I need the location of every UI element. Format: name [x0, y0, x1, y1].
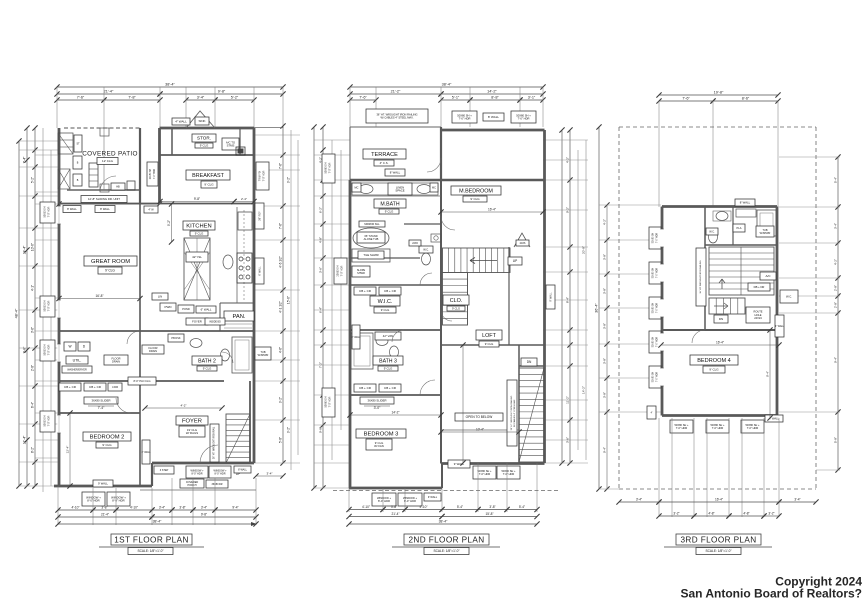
plan 1: kitchen bottom wall — [59, 330, 254, 332]
svg-text:ALONE TUB: ALONE TUB — [364, 237, 379, 241]
plan 2: interior dimension bedroom3 — [350, 414, 441, 416]
plan 1: left leader lines — [19, 140, 59, 142]
plan 1: porch slab edge — [140, 489, 256, 491]
svg-text:SCALE: 1/8"=1'-0": SCALE: 1/8"=1'-0" — [706, 549, 732, 553]
plan 2: bottom window boxes — [372, 493, 396, 506]
svg-text:CB + CR: CB + CR — [384, 289, 397, 293]
plan 2: stair landing rail — [467, 273, 469, 326]
svg-text:50X30 SH: 50X30 SH — [44, 300, 47, 311]
svg-text:15'-6": 15'-6" — [287, 296, 291, 304]
plan 1: patio AC pad hatch — [58, 169, 70, 189]
svg-text:BATH 3: BATH 3 — [379, 358, 397, 364]
plan 2: closet row — [354, 287, 376, 295]
plan 1: interior dimension breakfast — [160, 201, 234, 203]
plan 1: closet row boxes — [59, 383, 81, 391]
plan 1: title — [111, 534, 192, 545]
svg-text:MC: MC — [432, 186, 436, 189]
svg-text:36" HT. WROUGHT IRON RAILING: 36" HT. WROUGHT IRON RAILING — [699, 260, 702, 293]
svg-text:16'-4": 16'-4" — [715, 498, 723, 502]
svg-text:9' WALL: 9' WALL — [550, 292, 553, 302]
plan 3: upper stairs — [709, 247, 774, 295]
plan 1: great room top wall boxes — [63, 206, 81, 213]
svg-text:9'-4": 9'-4" — [834, 357, 838, 363]
svg-text:TERRACE: TERRACE — [371, 152, 398, 158]
plan 1: entry door arc — [200, 445, 218, 463]
svg-text:7'-8": 7'-8" — [128, 96, 136, 100]
plan 2: title — [404, 534, 489, 545]
svg-text:6" WALL: 6" WALL — [201, 307, 212, 311]
svg-text:4'-10": 4'-10" — [362, 505, 370, 509]
svg-text:9' WALL: 9' WALL — [98, 481, 108, 485]
svg-text:12' CLG: 12' CLG — [102, 159, 114, 163]
plan 3: outer walls — [662, 205, 777, 208]
svg-text:3'-6": 3'-6" — [319, 267, 323, 273]
svg-text:PWD: PWD — [165, 305, 173, 309]
svg-text:7'-0" HDR: 7'-0" HDR — [459, 117, 471, 121]
plan 1: bedroom2 label — [83, 432, 131, 441]
svg-text:15'-8": 15'-8" — [485, 512, 493, 516]
plan 3: left wall window boxes — [649, 227, 661, 249]
svg-text:21'-4": 21'-4" — [104, 90, 114, 94]
plan 1: bath2 door arc — [222, 352, 233, 363]
svg-text:UP: UP — [513, 259, 517, 263]
svg-text:LIN: LIN — [158, 294, 162, 298]
plan 3: bottom window boxes — [670, 420, 693, 433]
svg-text:CLO.: CLO. — [450, 298, 463, 304]
plan 2: mbath label — [374, 199, 406, 208]
svg-text:50X80 SH: 50X80 SH — [653, 302, 655, 313]
svg-text:4'-1 1/2": 4'-1 1/2" — [279, 301, 283, 313]
svg-text:CB + CR: CB + CR — [384, 386, 397, 390]
svg-text:3'-8": 3'-8" — [603, 323, 607, 329]
svg-text:9' CLG: 9' CLG — [204, 183, 214, 187]
svg-text:8' WALL: 8' WALL — [390, 170, 401, 174]
svg-text:10'-6": 10'-6" — [31, 243, 35, 251]
svg-text:9' CLG: 9' CLG — [709, 368, 719, 372]
svg-text:BATH 2: BATH 2 — [198, 358, 216, 364]
plan 2: top extension lines — [349, 87, 351, 127]
svg-text:W/SHWR: W/SHWR — [760, 232, 771, 235]
plan 1: kitchen island — [184, 238, 210, 300]
plan 3: roof access note vertical — [696, 248, 706, 306]
svg-text:36" HT. WROUGHT IRON RAIL: 36" HT. WROUGHT IRON RAIL — [213, 426, 216, 459]
svg-text:48'-4": 48'-4" — [15, 308, 19, 318]
svg-text:OPEN TO BELOW: OPEN TO BELOW — [466, 415, 493, 419]
svg-text:8'-8": 8'-8" — [491, 96, 499, 100]
svg-text:14'-2": 14'-2" — [487, 90, 497, 94]
svg-text:SHWR: SHWR — [357, 272, 365, 275]
plan 2: upper stairs run — [443, 248, 511, 273]
svg-text:2'-8": 2'-8" — [31, 365, 35, 371]
svg-text:50X80 SH: 50X80 SH — [653, 232, 655, 243]
svg-text:7'-4": 7'-4" — [23, 156, 27, 164]
plan 2: bedroom3 label — [356, 429, 406, 438]
svg-text:9' WALL: 9' WALL — [428, 496, 438, 499]
svg-text:4'-10": 4'-10" — [130, 506, 138, 510]
svg-text:ST: ST — [76, 142, 80, 145]
plan 2: interior dimension mbedroom — [441, 211, 543, 213]
svg-text:3'-2": 3'-2" — [673, 512, 679, 516]
plan 2: dormer triangle — [514, 233, 530, 247]
svg-text:50X80 SH: 50X80 SH — [325, 162, 328, 173]
svg-text:BEDROOM 2: BEDROOM 2 — [90, 435, 125, 441]
svg-text:8'-0" HDR: 8'-0" HDR — [378, 499, 390, 503]
plan 2: terrace label — [363, 149, 406, 159]
svg-text:7'-0" HDR: 7'-0" HDR — [676, 426, 688, 430]
plan 1: WH dark box — [236, 147, 245, 155]
svg-text:DRAIN: DRAIN — [112, 360, 120, 364]
plan 1: left wall window boxes — [40, 202, 55, 223]
plan 1: vertical wall patio-breakfast — [158, 128, 161, 204]
svg-text:9'-8": 9'-8" — [201, 513, 207, 517]
svg-text:M.BEDROOM: M.BEDROOM — [459, 188, 493, 194]
svg-text:7'-0" HDR: 7'-0" HDR — [657, 268, 659, 279]
plan 3: right dimension column — [837, 157, 839, 470]
svg-text:24X6: 24X6 — [412, 242, 418, 245]
plan 1: bedroom2 door arc — [116, 398, 131, 413]
svg-text:2ND FLOOR PLAN: 2ND FLOOR PLAN — [408, 536, 484, 545]
svg-text:9' CLG: 9' CLG — [203, 366, 212, 370]
plan 2: bath3 bottom wall — [350, 394, 441, 396]
svg-text:9' CLG: 9' CLG — [105, 269, 115, 273]
svg-text:7'-0" HDR: 7'-0" HDR — [712, 426, 724, 430]
plan 1: covered patio roof dashed edge — [64, 127, 140, 129]
svg-text:4'-2": 4'-2" — [834, 259, 838, 265]
svg-text:CB + CR: CB + CR — [359, 289, 372, 293]
plan 1: patio strip window boxes — [147, 162, 158, 186]
svg-text:12'-4": 12'-4" — [66, 446, 70, 454]
plan 1: room label BREAKFAST — [186, 170, 230, 180]
svg-text:FOYER: FOYER — [182, 419, 202, 425]
svg-text:3'-8": 3'-8" — [179, 506, 185, 510]
svg-text:5'-4": 5'-4" — [519, 505, 525, 509]
svg-text:3'-8": 3'-8" — [603, 358, 607, 364]
svg-text:4'-6 1/2": 4'-6 1/2" — [279, 256, 283, 268]
svg-text:10'-4": 10'-4" — [476, 428, 484, 432]
svg-text:7'-0" HDR: 7'-0" HDR — [479, 472, 491, 476]
svg-text:7'-0" HDR: 7'-0" HDR — [503, 472, 515, 476]
plan 2: bedroom3 left wall box — [352, 325, 360, 349]
svg-text:7'-6": 7'-6" — [77, 96, 85, 100]
svg-text:8' WALL: 8' WALL — [238, 468, 248, 471]
plan 2: terrace right wall — [440, 127, 442, 180]
svg-text:W/SHWR: W/SHWR — [258, 354, 269, 357]
plan 1: right dimension column — [282, 126, 284, 463]
svg-text:7'-0" HDR: 7'-0" HDR — [329, 162, 332, 173]
svg-text:4'-2": 4'-2" — [603, 219, 607, 225]
svg-text:4'-8": 4'-8" — [743, 512, 749, 516]
svg-text:5'-2": 5'-2" — [231, 96, 239, 100]
plan 1: bottom extension lines — [57, 488, 59, 525]
plan 2: mbed door arc — [441, 216, 455, 230]
svg-text:3'-4": 3'-4" — [197, 96, 205, 100]
plan 2: right wall vertical label — [546, 285, 555, 309]
plan 1: kitchen range — [237, 253, 252, 283]
svg-text:UTIL.: UTIL. — [73, 358, 82, 362]
svg-text:W/ FAN: W/ FAN — [374, 444, 384, 448]
svg-text:9'-2": 9'-2" — [287, 177, 291, 183]
svg-text:7'-6": 7'-6" — [359, 96, 367, 100]
svg-text:3'-4": 3'-4" — [834, 223, 838, 229]
plan 2: bottom dimension lines — [349, 509, 383, 511]
svg-text:MC: MC — [355, 186, 359, 189]
plan 2: lower stairs run — [443, 273, 468, 326]
svg-text:W.C.: W.C. — [786, 294, 792, 298]
svg-text:4'-1": 4'-1" — [31, 285, 35, 291]
plan 3: bottom extension lines — [658, 418, 660, 517]
svg-text:1ST FLOOR PLAN: 1ST FLOOR PLAN — [114, 536, 189, 545]
plan 1: left dimension column — [18, 141, 20, 486]
plan 3: 4 wall vertical box — [775, 315, 784, 337]
plan 3: interior wall y330 — [662, 329, 777, 331]
svg-text:2'-8": 2'-8" — [834, 285, 838, 291]
svg-text:9'-8": 9'-8" — [218, 90, 226, 94]
svg-text:4" WALL: 4" WALL — [175, 120, 187, 124]
svg-text:50X30 SH: 50X30 SH — [44, 206, 47, 217]
svg-text:6' WALL: 6' WALL — [259, 266, 262, 276]
svg-text:M.BATH: M.BATH — [380, 201, 399, 207]
svg-text:9'-4": 9'-4" — [603, 447, 607, 453]
plan 3: 8' wall box — [735, 199, 755, 206]
svg-text:16'-4": 16'-4" — [488, 208, 496, 212]
svg-text:3'-8": 3'-8" — [603, 392, 607, 398]
plan 3: left dimension column — [598, 127, 600, 489]
svg-text:POND: POND — [182, 307, 190, 311]
svg-text:9' CLG: 9' CLG — [381, 308, 390, 312]
plan 1: patio slab edge — [67, 189, 139, 191]
plan 2: mirror sill box — [359, 221, 385, 227]
svg-text:LOFT: LOFT — [482, 333, 496, 339]
svg-text:STMS: STMS — [227, 144, 235, 148]
plan 2: mbath walls — [404, 223, 441, 225]
plan 1: interior dimension kitchen vertical — [171, 204, 173, 242]
plan 1: bottom window boxes — [82, 492, 105, 506]
plan 1: bath2 fixtures — [232, 337, 252, 373]
plan 3: route hole box — [746, 307, 770, 323]
svg-text:5'-4": 5'-4" — [834, 177, 838, 183]
plan 1: slider box — [84, 397, 118, 404]
svg-text:SCALE: 1/8"=1'-0": SCALE: 1/8"=1'-0" — [138, 549, 164, 553]
svg-text:3'-4": 3'-4" — [267, 472, 273, 476]
svg-text:9'-8": 9'-8" — [194, 197, 200, 201]
svg-text:3'-4": 3'-4" — [159, 506, 165, 510]
svg-text:5'-2": 5'-2" — [31, 177, 35, 183]
plan 1: hall wall y381 — [59, 380, 224, 382]
svg-text:9' CLG: 9' CLG — [200, 143, 209, 147]
svg-text:8'-0" PLN CLG: 8'-0" PLN CLG — [134, 379, 151, 383]
plan 1: left wall window gaps — [57, 206, 60, 224]
svg-text:7'-0" HDR: 7'-0" HDR — [263, 170, 266, 181]
svg-text:20X50 SH: 20X50 SH — [337, 265, 340, 276]
svg-text:DN: DN — [527, 360, 532, 364]
plan 2: bath3 label — [373, 356, 403, 365]
svg-text:7'-0" HDR: 7'-0" HDR — [48, 300, 51, 311]
plan 3: bottom dimension lines — [619, 501, 659, 503]
plan 2: mbath toilet — [422, 253, 431, 265]
svg-text:4" WALL: 4" WALL — [141, 451, 151, 454]
svg-text:16'-4": 16'-4" — [716, 341, 724, 345]
svg-text:20'-8": 20'-8" — [582, 246, 586, 254]
svg-text:7'-0" HDR: 7'-0" HDR — [329, 396, 332, 407]
svg-text:9' CLG: 9' CLG — [452, 306, 460, 310]
svg-text:4'-10": 4'-10" — [71, 506, 79, 510]
plan 3: title — [676, 534, 761, 545]
plan 2: top window boxes — [452, 111, 477, 123]
svg-text:W.I.C.: W.I.C. — [378, 299, 393, 305]
plan 3: dn box — [714, 315, 728, 323]
svg-text:HB: HB — [116, 185, 120, 188]
plan 3: bath divider walls — [704, 207, 706, 331]
svg-text:4" WALL: 4" WALL — [351, 336, 361, 339]
svg-text:TRIM FIX: TRIM FIX — [259, 170, 262, 181]
svg-text:9'-8": 9'-8" — [23, 346, 27, 354]
svg-text:4'-10": 4'-10" — [419, 505, 427, 509]
plan 2: spine wall x441 — [440, 180, 442, 464]
svg-text:12'-4": 12'-4" — [23, 435, 27, 444]
svg-text:4" W: 4" W — [148, 208, 154, 211]
svg-text:36'-4": 36'-4" — [595, 303, 599, 313]
plan 1: bottom dimension lines — [58, 509, 93, 511]
svg-text:7'-0" HDR: 7'-0" HDR — [341, 265, 344, 276]
svg-text:36X80 SLIDER: 36X80 SLIDER — [368, 398, 387, 402]
svg-text:INSIDE BD: INSIDE BD — [209, 321, 221, 323]
svg-text:19'-4": 19'-4" — [23, 245, 27, 254]
svg-text:7'-6": 7'-6" — [682, 97, 690, 101]
plan 1: stair railing note vertical — [210, 424, 219, 462]
svg-text:50X30 SH: 50X30 SH — [44, 344, 47, 355]
svg-text:W/ RAILS: W/ RAILS — [186, 431, 198, 435]
svg-text:PB DSK: PB DSK — [171, 337, 181, 340]
plan 2: open to below railing line — [441, 429, 519, 431]
plan 1: foyer label — [176, 416, 208, 425]
svg-text:3RD FLOOR PLAN: 3RD FLOOR PLAN — [680, 536, 756, 545]
plan 2: clo label — [443, 295, 469, 305]
plan 1: bath2 label — [192, 356, 222, 365]
plan 1: bay window labels — [172, 118, 190, 125]
plan 1: top wall leader stub — [254, 127, 283, 129]
plan 1: hall boxes — [160, 303, 176, 311]
svg-text:W/ CABLES 4" STEEL MAX.: W/ CABLES 4" STEEL MAX. — [513, 399, 516, 427]
svg-text:16'-8": 16'-8" — [95, 294, 103, 298]
svg-text:W.C.: W.C. — [423, 247, 429, 251]
svg-text:7'-6": 7'-6" — [279, 223, 283, 229]
svg-text:4" WALL: 4" WALL — [775, 325, 785, 328]
svg-text:GREAT ROOM: GREAT ROOM — [91, 259, 130, 265]
plan 1: stor room divider walls — [171, 128, 173, 155]
svg-text:50X80 SH: 50X80 SH — [325, 396, 328, 407]
svg-text:9'-4": 9'-4" — [766, 371, 770, 377]
plan 1: outer walls — [160, 127, 255, 130]
svg-text:BEDROOM 3: BEDROOM 3 — [364, 432, 399, 438]
plan 2: vanity fixtures — [352, 183, 438, 195]
plan 2: terrace outline — [350, 126, 441, 128]
plan 3: right leader lines — [779, 156, 840, 158]
plan 1: pantry walls — [219, 303, 221, 331]
svg-text:50X30 SH: 50X30 SH — [44, 415, 47, 426]
svg-text:8'-6": 8'-6" — [742, 97, 750, 101]
plan 1: right leader lines — [254, 134, 300, 136]
plan 2: 9' wall box — [448, 460, 470, 468]
plan 2: vanity counter — [350, 195, 441, 197]
svg-text:3'-8": 3'-8" — [101, 506, 107, 510]
svg-text:W.C.: W.C. — [709, 230, 715, 233]
svg-text:A/C: A/C — [765, 274, 771, 278]
svg-text:DB + DR: DB + DR — [754, 285, 765, 289]
svg-text:PORCH: PORCH — [187, 484, 196, 487]
plan 2: bath3 door arc — [392, 330, 404, 342]
plan 2: slider box — [360, 397, 394, 404]
plan 1: kitchen counter edge — [236, 207, 238, 303]
svg-text:KITCHEN: KITCHEN — [186, 224, 211, 230]
plan 1: A/C to stms box — [222, 138, 239, 150]
plan 2: interior dimension loft vertical — [462, 345, 464, 463]
plan 1: util area — [64, 342, 76, 351]
svg-text:FOYER: FOYER — [192, 319, 202, 323]
svg-text:38'-4": 38'-4" — [442, 83, 452, 87]
svg-text:6'-4": 6'-4" — [31, 402, 35, 408]
svg-text:21'-4": 21'-4" — [101, 513, 109, 517]
svg-text:4'-6": 4'-6" — [279, 347, 283, 353]
svg-text:24X6: 24X6 — [520, 242, 526, 245]
svg-text:7'-0" HDR: 7'-0" HDR — [747, 426, 759, 430]
svg-text:9'-2": 9'-2" — [287, 427, 291, 433]
plan 2: wic walls — [350, 284, 441, 286]
plan 2: tile shower — [352, 249, 390, 262]
svg-text:4 DR: 4 DR — [112, 385, 118, 389]
plan 1: porch right leader — [256, 475, 283, 477]
plan 3: lower stair treads — [709, 298, 745, 314]
plan 1: patio door arc — [100, 176, 116, 192]
svg-text:3 STEP: 3 STEP — [160, 469, 169, 472]
svg-text:8'-0" HDR: 8'-0" HDR — [214, 472, 225, 475]
svg-text:STOR.: STOR. — [197, 136, 211, 141]
plan 3: top extension lines — [658, 101, 660, 207]
plan 1: top dimension lines — [57, 86, 283, 88]
plan 1: kitchen wall label — [196, 306, 216, 313]
svg-text:SPACE: SPACE — [395, 189, 404, 193]
plan 1: misc small boxes row mid — [152, 293, 168, 300]
plan 2: railing note vertical — [507, 380, 517, 446]
svg-text:DN: DN — [719, 317, 723, 321]
svg-text:DRAIN: DRAIN — [149, 349, 157, 353]
svg-text:19'-8": 19'-8" — [714, 91, 724, 95]
plan 3: bath fixtures — [716, 212, 728, 221]
plan 2: wall below terrace — [350, 179, 545, 181]
svg-text:21'-4": 21'-4" — [391, 512, 399, 516]
plan 3: bedroom4 door arc — [692, 330, 705, 343]
svg-text:9' CLG: 9' CLG — [385, 209, 394, 213]
svg-text:9'-2": 9'-2" — [167, 220, 171, 226]
plan 2: lower stairs — [519, 368, 544, 462]
plan 2: bedroom3 door arc — [420, 380, 435, 395]
svg-text:CB + CR: CB + CR — [89, 385, 102, 389]
svg-text:BEDROOM 4: BEDROOM 4 — [697, 358, 731, 364]
svg-text:38'-4": 38'-4" — [165, 83, 175, 87]
svg-text:3'-2": 3'-2" — [768, 512, 774, 516]
plan 1: kitchen sink dashes — [243, 210, 245, 300]
svg-text:9'-4": 9'-4" — [232, 506, 238, 510]
plan 3: ac box — [760, 272, 776, 280]
plan 1: interior dimension foyer — [145, 407, 222, 409]
svg-text:7'-0" HDR: 7'-0" HDR — [657, 337, 659, 348]
plan 1: patio grill element — [89, 163, 98, 187]
svg-text:9' CLG: 9' CLG — [384, 366, 393, 370]
svg-text:9'-2": 9'-2" — [279, 397, 283, 403]
plan 2: bath small box — [409, 240, 421, 246]
svg-text:8' WALL: 8' WALL — [740, 200, 751, 204]
plan 2: terrace door arc — [427, 158, 441, 172]
plan 1: patio slider dim line — [59, 203, 160, 205]
